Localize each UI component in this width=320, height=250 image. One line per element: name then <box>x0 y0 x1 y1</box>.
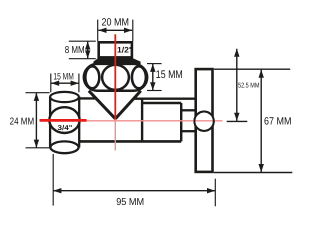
body top-left edge <box>80 97 97 99</box>
svg-text:1/2": 1/2" <box>117 45 133 54</box>
dim 20MM arrow <box>98 29 132 31</box>
body divider <box>141 99 143 142</box>
bottom reference line right of plate <box>214 172 292 174</box>
svg-text:24 MM: 24 MM <box>10 116 35 127</box>
fitting bottom ellipse <box>50 141 78 153</box>
red vertical centerline <box>114 34 116 119</box>
fitting body sides (3/4 inch nut cylinder) <box>50 97 79 148</box>
handle stadium band <box>84 64 147 91</box>
dim 24MM ticks <box>26 93 50 148</box>
top reference line right of plate <box>214 68 290 70</box>
svg-text:15 MM: 15 MM <box>53 72 74 83</box>
svg-text:3/4": 3/4" <box>58 124 73 132</box>
svg-text:20 MM: 20 MM <box>101 17 129 29</box>
body top-right edge to plate <box>134 97 195 99</box>
fitting middle ellipse <box>49 107 79 133</box>
handle center ellipse <box>102 65 129 90</box>
dim 8MM ticks <box>69 41 96 59</box>
handle right end ellipse <box>132 66 146 88</box>
body bottom edge <box>80 140 181 143</box>
V cone right arm <box>115 91 140 119</box>
knob circle <box>194 112 213 131</box>
packing nut black base <box>93 58 140 64</box>
svg-text:52.5 MM: 52.5 MM <box>238 82 260 89</box>
wire: left 15MM extension lines <box>51 74 79 93</box>
fitting top ellipse <box>50 92 79 102</box>
knob circle ring restroke <box>194 112 213 131</box>
dim 52.5MM bottom tick <box>227 120 248 122</box>
neck bottom <box>181 130 196 132</box>
dim 67MM arrow <box>260 69 262 172</box>
V cone left arm <box>89 91 116 119</box>
svg-text:15 MM: 15 MM <box>156 69 183 81</box>
svg-text:67 MM: 67 MM <box>264 116 292 128</box>
right section top edge <box>142 102 181 104</box>
dim 52.5MM arrow <box>236 49 238 121</box>
handle left end ellipse <box>85 66 99 88</box>
dim 8MM arrow <box>87 41 89 58</box>
neck top <box>181 109 196 111</box>
dim 15MM right arrow <box>152 64 154 91</box>
dim 24MM arrow <box>35 93 37 148</box>
pink vertical centerline tail <box>114 120 116 151</box>
right section right edge <box>180 103 182 141</box>
svg-text:95 MM: 95 MM <box>116 197 144 208</box>
wall plate <box>196 69 213 172</box>
dim 95MM arrow <box>53 190 215 192</box>
svg-text:8 MM: 8 MM <box>65 45 85 56</box>
dim 15MM left arrow <box>51 82 79 84</box>
dim 20MM extension lines <box>98 20 133 42</box>
pink horizontal centerline <box>87 120 223 122</box>
red horizontal centerline thick <box>40 119 87 122</box>
dim 95MM extension lines <box>53 154 215 206</box>
dim 15MM right ticks <box>147 64 162 91</box>
thread rect 1/2 inch <box>99 42 132 57</box>
